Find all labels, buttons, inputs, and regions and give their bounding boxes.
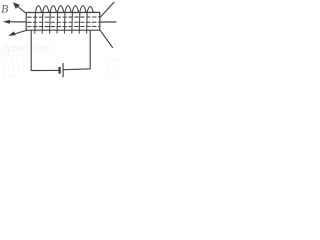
arrowhead of down-left field line (8, 31, 16, 36)
field line down-right (100, 31, 112, 48)
dashed B-field lines inside core (28, 17, 100, 27)
wire: solenoid left end to battery negative (31, 31, 58, 71)
solenoid L1 core rectangle (26, 12, 100, 30)
battery BT1 negative plate (short thick) (58, 67, 60, 74)
solenoid L1 winding front lines (35, 13, 87, 34)
arrowhead of horizontal-left field line (3, 20, 10, 24)
arrowhead of up-left field line (13, 2, 20, 9)
field line arrow up-left shaft (16, 5, 26, 13)
battery BT1 positive plate (long thin) (62, 63, 64, 77)
field line arrow horizontal-left shaft (7, 21, 27, 23)
field line horizontal-right (100, 21, 116, 23)
wire: battery positive to solenoid right end (64, 31, 90, 70)
field line arrow down-left shaft (13, 30, 27, 34)
solenoid L1 coil turn arcs (8 turns) (35, 6, 93, 13)
watermark halftone dots (1, 54, 118, 77)
svg-text:B: B (1, 1, 9, 15)
field line up-right (100, 2, 114, 17)
svg-text:Jyeoo.com: Jyeoo.com (1, 42, 52, 54)
